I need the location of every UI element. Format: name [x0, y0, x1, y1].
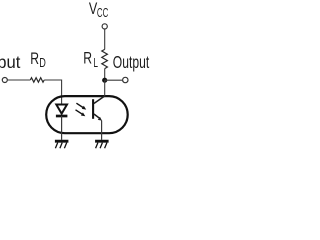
emitter line with arrow	[94, 114, 102, 121]
light arrow 1	[76, 103, 86, 109]
LED cathode wire to ground	[61, 116, 63, 140]
ground (emitter side)	[95, 141, 109, 148]
wire junction to output terminal	[105, 79, 123, 81]
svg-text:R: R	[30, 49, 39, 68]
junction node dot	[102, 78, 107, 83]
label VCC	[89, 0, 108, 20]
collector line	[94, 96, 105, 104]
svg-text:CC: CC	[97, 5, 108, 20]
wire VCC to RL	[104, 29, 106, 49]
svg-text:R: R	[83, 49, 92, 68]
LED cathode bar	[56, 115, 68, 118]
emitter wire to ground	[101, 121, 103, 140]
input terminal circle	[2, 78, 7, 83]
resistor RL	[102, 49, 108, 68]
LED D1 triangle	[56, 105, 67, 114]
phototransistor Q1 base bar	[92, 99, 94, 119]
resistor RD	[30, 78, 44, 83]
VCC terminal circle	[102, 24, 107, 29]
svg-text:L: L	[93, 56, 98, 70]
output terminal circle	[123, 77, 128, 82]
light arrow 2	[76, 110, 86, 116]
wire RD to LED anode	[44, 80, 61, 104]
optocoupler package	[46, 96, 128, 133]
wire junction to collector	[104, 80, 106, 96]
wire RL to junction	[104, 69, 106, 81]
svg-text:Input: Input	[0, 52, 21, 72]
label RL	[83, 49, 98, 70]
svg-text:D: D	[39, 56, 46, 70]
ground (LED side)	[55, 141, 69, 148]
label RD	[30, 49, 46, 70]
svg-text:Output: Output	[113, 52, 149, 72]
wire input to RD	[8, 79, 31, 81]
